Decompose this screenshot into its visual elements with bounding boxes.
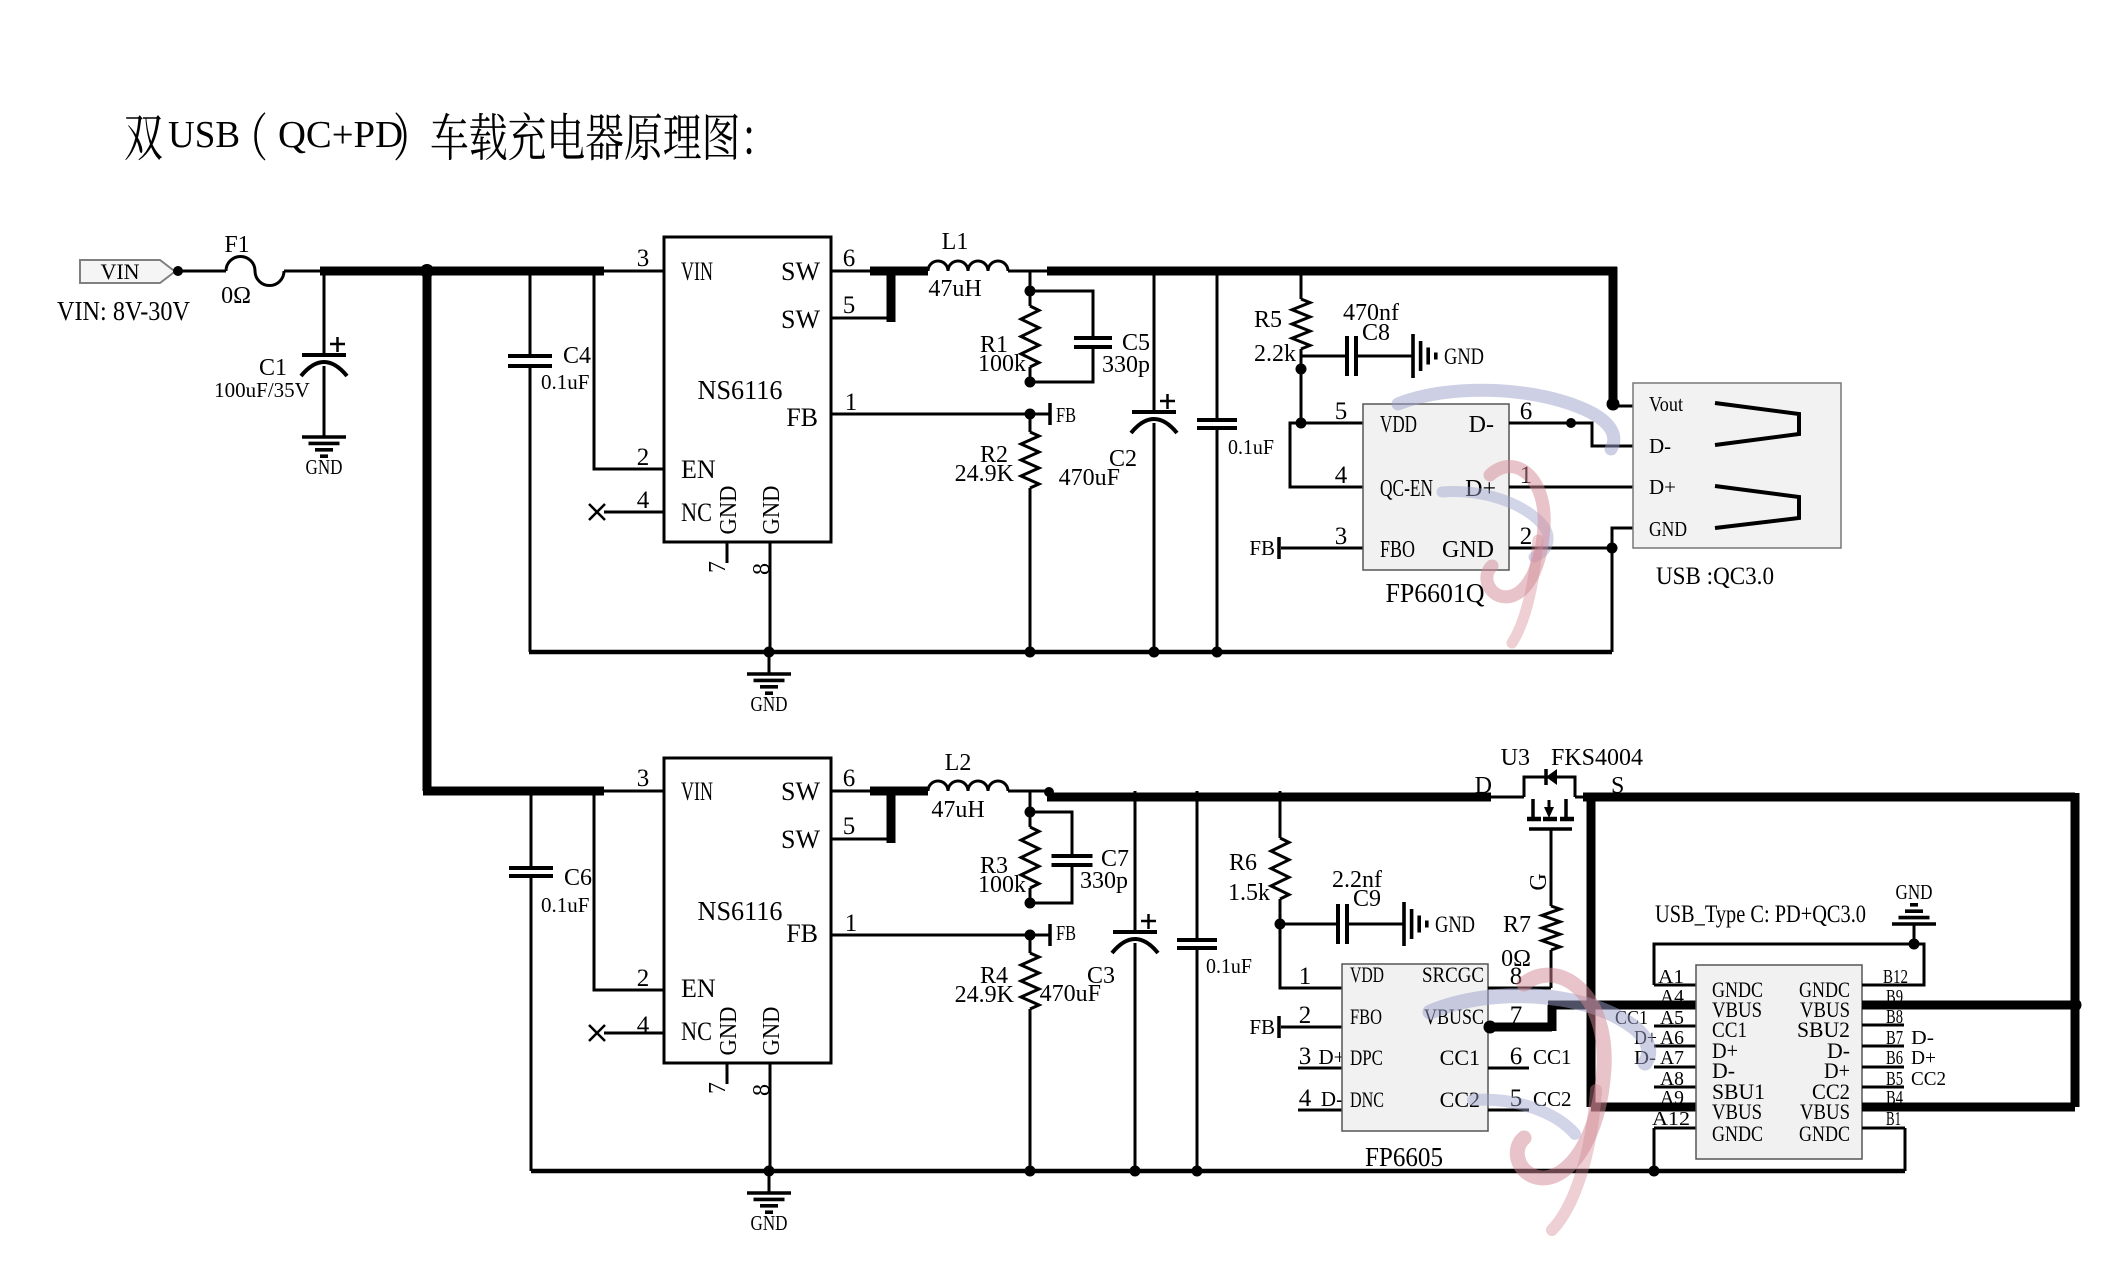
pin 3 DPC wire [1298, 1067, 1342, 1070]
svg-text:NC: NC [681, 1017, 712, 1046]
pin 6 SW wire [831, 270, 874, 273]
svg-text:100k: 100k [978, 872, 1026, 898]
svg-text:GND: GND [759, 486, 785, 535]
pin 4 NC wire 2 [604, 1032, 664, 1035]
capacitor C2 [1132, 410, 1176, 414]
svg-text:L2: L2 [945, 750, 972, 776]
svg-text:4: 4 [637, 1012, 650, 1039]
wire C7 branch top [1030, 812, 1072, 856]
wire C3 bottom [1134, 943, 1137, 1171]
svg-text:VIN: VIN [681, 777, 713, 806]
svg-text:GND: GND [716, 486, 742, 535]
wire input bus 2 (thick) [423, 787, 604, 796]
svg-text:FB: FB [1056, 921, 1076, 945]
ground bottom [747, 1191, 791, 1195]
capacitor C5 [1074, 336, 1112, 340]
svg-text:2.2k: 2.2k [1254, 341, 1296, 367]
svg-text:C8: C8 [1362, 320, 1390, 346]
svg-text:SW: SW [781, 257, 820, 286]
wire C6 top [530, 791, 533, 868]
wire input bus (thick) [320, 267, 604, 276]
svg-text:DNC: DNC [1350, 1087, 1384, 1112]
wire B1 down [1904, 1128, 1907, 1171]
connector J2 Type-C [1696, 965, 1862, 1159]
pin B9 wire (thick) [1862, 1001, 2075, 1010]
pin 5 VDD wire [1301, 422, 1363, 425]
pin 5 CC2 wire [1488, 1109, 1529, 1112]
junction gnd C2 [1149, 647, 1160, 658]
svg-text:5: 5 [843, 292, 856, 319]
svg-text:GND: GND [751, 1211, 788, 1235]
svg-text:R7: R7 [1503, 912, 1531, 938]
svg-text:A5: A5 [1660, 1007, 1684, 1029]
svg-text:4: 4 [1335, 462, 1348, 489]
junction GND drop [1607, 543, 1618, 554]
svg-text:2: 2 [637, 965, 650, 992]
svg-text:7: 7 [705, 1082, 731, 1094]
IC U2 FP6601Q [1363, 404, 1509, 570]
pin 6 D- wire [1509, 423, 1633, 446]
capacitor C8 [1345, 336, 1349, 376]
svg-text:0.1uF: 0.1uF [541, 370, 589, 394]
svg-text:8: 8 [749, 1084, 775, 1096]
svg-text:A9: A9 [1660, 1087, 1684, 1109]
wire R1 tap [1029, 271, 1032, 291]
ground type-c (up) [1892, 922, 1936, 926]
svg-text:100k: 100k [978, 351, 1026, 377]
svg-text:A12: A12 [1652, 1108, 1690, 1130]
svg-text:GND: GND [1435, 912, 1475, 937]
junction R1 bottom [1025, 377, 1036, 388]
svg-text:330p: 330p [1080, 868, 1128, 894]
svg-text:B12: B12 [1883, 966, 1908, 988]
net label FB stub 2 [1048, 924, 1052, 946]
wire SW thick jog [870, 267, 928, 276]
svg-text:FBO: FBO [1350, 1004, 1382, 1029]
svg-text:1.5k: 1.5k [1228, 880, 1270, 906]
junction L2 out [1044, 787, 1054, 797]
svg-text:A1: A1 [1658, 966, 1684, 988]
svg-text:F1: F1 [224, 232, 249, 258]
pin 5 SW wire [831, 317, 891, 320]
svg-text:2: 2 [1520, 523, 1533, 550]
fuse F1 [226, 257, 284, 286]
svg-text:QC-EN: QC-EN [1380, 476, 1433, 502]
svg-text:7: 7 [1510, 1002, 1523, 1029]
wire C7 branch bottom [1030, 867, 1072, 903]
junction gnd1 [764, 647, 775, 658]
svg-text:B1: B1 [1886, 1108, 1901, 1130]
svg-text:B6: B6 [1886, 1047, 1903, 1069]
ground C8 (rotated) [1411, 334, 1415, 378]
svg-text:6: 6 [1520, 398, 1533, 425]
node VIN dot [173, 266, 183, 276]
pin 7 stub 2 [726, 1063, 729, 1084]
svg-text:D-: D- [1321, 1087, 1343, 1111]
pin 1 FB wire [831, 413, 1050, 416]
svg-text:D-: D- [1469, 412, 1494, 438]
svg-text:GNDC: GNDC [1712, 1121, 1763, 1146]
svg-text:D-: D- [1649, 434, 1671, 458]
net label FB stub U5 [1277, 1016, 1281, 1038]
svg-text:VDD: VDD [1350, 962, 1384, 987]
svg-text:GND: GND [1896, 880, 1933, 904]
pin B4 wire (thick) [1862, 1103, 2075, 1112]
pin 3 VIN wire 2 [604, 790, 664, 793]
wire gnd stub up [1913, 924, 1916, 944]
pin B8 wire [1862, 1024, 1904, 1027]
svg-text:Vout: Vout [1649, 392, 1683, 416]
resistor R3 [1021, 827, 1039, 888]
svg-text:FB: FB [1056, 403, 1076, 427]
wire C5 branch top [1030, 291, 1093, 338]
svg-text:DPC: DPC [1350, 1045, 1383, 1070]
wire R6 top [1279, 791, 1282, 838]
svg-text:FB: FB [1249, 536, 1275, 560]
svg-text:FP6605: FP6605 [1365, 1142, 1443, 1172]
svg-text:330p: 330p [1102, 352, 1150, 378]
capacitor C6 [509, 866, 553, 870]
ground C9 (rotated) [1402, 902, 1406, 946]
svg-text:0.1uF: 0.1uF [541, 893, 589, 917]
svg-text:GND: GND [751, 692, 788, 716]
pin 3 VIN wire [604, 270, 664, 273]
net label FB stub [1048, 403, 1052, 425]
junction R3 bottom [1025, 898, 1036, 909]
pin A9 wire (thick) [1591, 1103, 1696, 1112]
net label FB stub U2 [1277, 537, 1281, 559]
svg-text:3: 3 [1335, 523, 1348, 550]
junction gnd C10 [1212, 647, 1223, 658]
pin 6 SW wire 2 [831, 790, 874, 793]
svg-text:D: D [1475, 773, 1492, 799]
pin 2 EN wire [594, 275, 664, 469]
no-connect X 2 [589, 1025, 605, 1041]
pin B6 wire [1862, 1066, 1904, 1069]
svg-text:SW: SW [781, 305, 820, 334]
svg-text:A7: A7 [1660, 1047, 1684, 1069]
wire C9 to gnd [1349, 923, 1403, 926]
wire GND to USB [1612, 528, 1633, 652]
wire L1 out [1008, 270, 1052, 273]
svg-text:A4: A4 [1660, 986, 1684, 1008]
pin 7 stub [726, 542, 729, 563]
pin 8 SRCGC wire [1488, 987, 1551, 990]
wire gate [1550, 830, 1553, 906]
svg-text:GNDC: GNDC [1799, 1121, 1850, 1146]
junction gnd R2 [1025, 647, 1036, 658]
wire C5 branch bottom [1030, 349, 1093, 382]
svg-text:47uH: 47uH [931, 797, 984, 823]
connector J1 USB-A [1633, 383, 1841, 548]
pin A6 wire [1654, 1045, 1696, 1048]
capacitor 0.1uF bottom [1177, 938, 1217, 942]
pin B5 wire [1862, 1086, 1904, 1089]
wire VIN to F1 [182, 270, 226, 273]
pin 8 GND wire 2 [769, 1063, 772, 1171]
svg-text:SW: SW [781, 825, 820, 854]
wire C6 bottom [530, 878, 533, 1171]
svg-text:0.1uF: 0.1uF [1206, 954, 1252, 978]
svg-text:470uF: 470uF [1040, 981, 1101, 1007]
wire C2 bottom [1153, 423, 1156, 652]
wire C10 top [1216, 271, 1219, 420]
pin A4 wire (thick) [1591, 1001, 1696, 1010]
capacitor C7 [1052, 854, 1093, 858]
wire C4 bottom [529, 368, 532, 652]
watermark logo 1 [1398, 390, 1614, 643]
svg-text:D+: D+ [1649, 475, 1676, 499]
svg-text:24.9K: 24.9K [955, 461, 1015, 487]
junction R5 C8 [1296, 364, 1307, 375]
wire F1 to bus [284, 270, 322, 273]
svg-text:FB: FB [786, 403, 818, 432]
pin 7 VBUSC wire (thick) [1488, 1023, 1552, 1032]
svg-text:2: 2 [637, 444, 650, 471]
svg-text:4: 4 [637, 487, 650, 514]
svg-text:100uF/35V: 100uF/35V [214, 378, 310, 402]
wire VDD drop 2 [1280, 924, 1342, 988]
resistor R2 [1021, 432, 1039, 488]
svg-text:VIN: 8V-30V: VIN: 8V-30V [57, 296, 190, 326]
wire GND bus top [529, 650, 1612, 655]
svg-text:0Ω: 0Ω [221, 283, 251, 309]
wire SW thick jog 2 [870, 787, 928, 796]
capacitor 0.1uF top [1197, 418, 1237, 422]
svg-text:QC+PD: QC+PD [278, 114, 403, 156]
svg-text:A6: A6 [1660, 1027, 1684, 1049]
svg-text:470uF: 470uF [1059, 465, 1120, 491]
svg-text:3: 3 [637, 245, 650, 272]
svg-text:FB: FB [1249, 1015, 1275, 1039]
pin 2 FBO wire 2 [1281, 1026, 1342, 1029]
wire C11 bottom [1196, 950, 1199, 1171]
wire C10 bottom [1216, 430, 1219, 652]
svg-text:L1: L1 [942, 229, 969, 255]
svg-text:8: 8 [749, 563, 775, 575]
svg-text:6: 6 [1510, 1043, 1523, 1070]
wire C1 bottom [323, 366, 326, 437]
pin 1 FB wire 2 [831, 934, 1050, 937]
wire VBUS vertical A (thick) [1587, 793, 1596, 1107]
svg-text:3: 3 [1299, 1043, 1312, 1070]
typec pin names right [1797, 977, 1850, 1146]
svg-text:GND: GND [716, 1007, 742, 1056]
pin 4 DNC wire [1298, 1109, 1342, 1112]
wire VBUS vertical B (thick) [2071, 793, 2080, 1107]
resistor R4 [1021, 953, 1039, 1009]
svg-text:FBO: FBO [1380, 537, 1415, 563]
svg-text:FKS4004: FKS4004 [1551, 745, 1643, 771]
inductor L1 [928, 261, 1008, 271]
svg-text:3: 3 [637, 765, 650, 792]
pin 4 NC wire [604, 511, 664, 514]
svg-text:2: 2 [1299, 1002, 1312, 1029]
transistor U3 FKS4004 body diode loop [1491, 796, 1524, 799]
svg-text:CC1: CC1 [1440, 1045, 1480, 1070]
inductor L2 [928, 781, 1008, 791]
junction VDD node [1296, 418, 1307, 429]
wire gnd stub 2 [768, 1171, 771, 1193]
svg-text:NC: NC [681, 498, 712, 527]
svg-text:VDD: VDD [1380, 412, 1417, 438]
svg-text:4: 4 [1299, 1085, 1312, 1112]
pin A8 wire [1654, 1086, 1696, 1089]
wire output bus top (thick) [1047, 267, 1617, 276]
wire S bus (thick) [1583, 793, 2075, 802]
svg-text:C6: C6 [564, 865, 592, 891]
svg-text:FB: FB [786, 919, 818, 948]
pin 6 CC1 wire [1488, 1067, 1529, 1070]
wire C8 to gnd [1358, 355, 1412, 358]
USB contact lower [1715, 486, 1799, 528]
wire Vout drop (thick) [1609, 267, 1618, 404]
wire VBUSC step (thick) [1548, 1005, 1557, 1031]
diode of U3 [1544, 769, 1548, 785]
resistor R5 [1292, 299, 1310, 349]
IC U4 NS6116 [664, 758, 831, 1063]
capacitor C4 [508, 354, 552, 358]
transistor U3 MOSFET [1531, 799, 1535, 817]
svg-text:USB: USB [168, 114, 240, 156]
svg-text:U3: U3 [1501, 745, 1530, 771]
wire C11 top [1196, 791, 1199, 940]
junction R1 top [1025, 286, 1036, 297]
junction gnd loop [1909, 939, 1920, 950]
IC U1 NS6116 [664, 237, 831, 542]
svg-text:USB_Type C: PD+QC3.0: USB_Type C: PD+QC3.0 [1655, 901, 1866, 928]
wire C2 top [1153, 271, 1156, 412]
svg-text:B4: B4 [1886, 1087, 1903, 1109]
pin A7 wire [1654, 1066, 1696, 1069]
pin 3 FBO wire [1281, 547, 1363, 550]
svg-text:GND: GND [1649, 517, 1687, 541]
pin B1 wire [1862, 1127, 1905, 1130]
svg-text:5: 5 [1335, 398, 1348, 425]
junction gnd2 [764, 1166, 775, 1177]
pin B12 wire [1862, 984, 1924, 987]
wire C4 top [529, 271, 532, 356]
ground mid [747, 672, 791, 676]
wire C8 branch [1301, 355, 1345, 358]
junction gnd A12 [1649, 1166, 1660, 1177]
svg-text:VIN: VIN [100, 259, 139, 284]
wire R3 tap [1029, 791, 1032, 812]
svg-text:1: 1 [1299, 963, 1312, 990]
svg-text:0.1uF: 0.1uF [1228, 435, 1274, 459]
svg-text:FP6601Q: FP6601Q [1386, 578, 1485, 608]
pin 1 D+ wire [1509, 486, 1633, 489]
wire GND bus bottom [531, 1169, 1905, 1174]
connector VIN tag [80, 260, 175, 283]
wire R5 top [1300, 271, 1303, 299]
ground C1 [302, 435, 346, 439]
svg-text:B7: B7 [1886, 1027, 1903, 1049]
wire main vertical bus (thick) [423, 267, 432, 791]
svg-text:NS6116: NS6116 [698, 375, 783, 405]
svg-text:CC2: CC2 [1911, 1068, 1946, 1090]
watermark logo 2 [1430, 975, 1649, 1230]
junction gnd C3 [1130, 1166, 1141, 1177]
svg-text:R5: R5 [1254, 307, 1282, 333]
svg-text:USB :QC3.0: USB :QC3.0 [1656, 563, 1774, 590]
svg-text:B8: B8 [1886, 1006, 1903, 1028]
svg-text:VIN: VIN [681, 257, 713, 286]
resistor R7 [1542, 906, 1560, 950]
junction FB node [1025, 409, 1036, 420]
svg-text:D+: D+ [1911, 1047, 1936, 1069]
svg-text:0Ω: 0Ω [1501, 946, 1531, 972]
junction R3 top [1025, 807, 1036, 818]
pin 8 GND wire [769, 542, 772, 652]
svg-text:C4: C4 [563, 343, 591, 369]
svg-text:1: 1 [845, 389, 858, 416]
wire Vout to USB [1613, 405, 1633, 408]
capacitor C9 [1336, 904, 1340, 944]
pin A5 wire [1654, 1025, 1696, 1028]
svg-text:24.9K: 24.9K [955, 982, 1015, 1008]
svg-text:C9: C9 [1353, 886, 1381, 912]
wire L2 out [1008, 790, 1052, 793]
svg-text:5: 5 [843, 813, 856, 840]
pin B7 wire [1862, 1045, 1904, 1048]
svg-text:GND: GND [1444, 344, 1484, 369]
svg-text:D-: D- [1911, 1027, 1934, 1049]
junction gnd R4 [1025, 1166, 1036, 1177]
junction R6 C9 [1275, 919, 1286, 930]
svg-text:SW: SW [781, 777, 820, 806]
svg-text:G: G [1526, 873, 1552, 890]
resistor R1 [1021, 306, 1039, 367]
svg-text:CC1: CC1 [1533, 1045, 1572, 1069]
title text 双USB（QC+PD）车载充电器原理图： [125, 112, 751, 160]
resistor R6 [1271, 838, 1289, 899]
svg-text:6: 6 [843, 765, 856, 792]
wire A12 down [1653, 1128, 1656, 1171]
svg-text:1: 1 [845, 910, 858, 937]
pin 5 SW wire 2 [831, 838, 891, 841]
pin 2 EN wire 2 [594, 795, 664, 990]
pin 2 GND wire [1509, 547, 1612, 550]
wire A1 loop [1654, 984, 1696, 987]
svg-text:EN: EN [681, 974, 716, 1003]
wire S link [1575, 796, 1591, 799]
svg-text:7: 7 [705, 561, 731, 573]
wire C9 branch [1280, 923, 1336, 926]
wire C1 top [323, 271, 326, 355]
USB contact upper [1715, 403, 1799, 445]
svg-text:B9: B9 [1886, 986, 1903, 1008]
svg-text:NS6116: NS6116 [698, 896, 783, 926]
wire C3 top [1134, 791, 1137, 932]
wire QC-EN link [1290, 423, 1363, 487]
svg-text:GND: GND [1442, 537, 1494, 563]
svg-text:R6: R6 [1229, 850, 1257, 876]
capacitor C3 [1113, 930, 1157, 934]
junction FB node 2 [1025, 930, 1036, 941]
IC U5 FP6605 [1342, 964, 1488, 1131]
wire output bus bottom (thick) [1047, 793, 1491, 802]
svg-text:GND: GND [306, 455, 343, 479]
pin A12 wire [1654, 1127, 1696, 1130]
svg-text:47uH: 47uH [928, 276, 981, 302]
capacitor C1 [302, 353, 346, 357]
svg-text:EN: EN [681, 455, 716, 484]
svg-text:GND: GND [759, 1007, 785, 1056]
typec pin names left [1712, 977, 1765, 1146]
svg-text:6: 6 [843, 245, 856, 272]
junction main bus [420, 264, 434, 278]
